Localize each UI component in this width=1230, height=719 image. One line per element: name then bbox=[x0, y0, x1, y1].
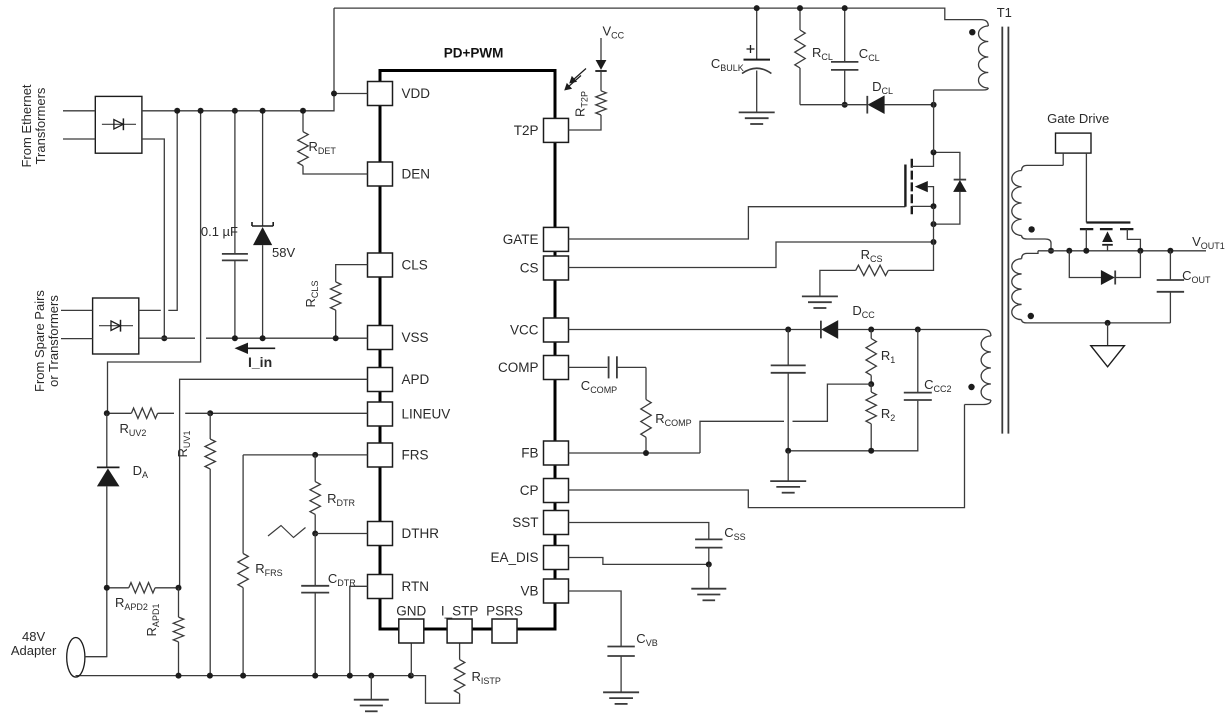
transistor Q2 gate lead bbox=[1085, 153, 1087, 222]
svg-text:VCC: VCC bbox=[510, 323, 539, 338]
transistor Q1 source lead bbox=[912, 205, 934, 207]
arrow I_in bbox=[247, 347, 275, 349]
wire lower winding to COUT bbox=[1169, 292, 1171, 323]
pin T2P box bbox=[544, 118, 569, 142]
node rail ground tap bbox=[368, 673, 374, 679]
svg-text:FB: FB bbox=[521, 446, 538, 461]
diode inside BR2 bbox=[99, 325, 133, 327]
ground CSS bbox=[708, 564, 710, 588]
node DCL to primary bbox=[931, 102, 937, 108]
node RDET top bbox=[300, 108, 306, 114]
resistor RDET bbox=[302, 111, 304, 132]
T1 upper secondary polarity dot bbox=[1028, 226, 1034, 232]
wire SST net bbox=[569, 523, 709, 540]
wire bottom rail bbox=[76, 675, 411, 677]
pin CP box bbox=[544, 479, 569, 503]
resistor RDTR bbox=[314, 455, 316, 482]
LED DT2P bbox=[600, 72, 602, 91]
diode inside BR1 bbox=[102, 123, 136, 125]
node R1 R2 junction bbox=[868, 381, 874, 387]
T1 primary polarity dot bbox=[969, 29, 975, 35]
pin COMP box bbox=[544, 356, 569, 380]
node RDTR bottom bbox=[312, 531, 318, 537]
wire RTN net bbox=[350, 586, 368, 675]
svg-text:DEN: DEN bbox=[402, 167, 431, 182]
bridge rectifier BR1 box bbox=[95, 96, 142, 153]
gate drive box bbox=[1056, 133, 1092, 153]
transistor Q1 gate bar bbox=[904, 165, 906, 207]
svg-text:PD+PWM: PD+PWM bbox=[444, 46, 504, 61]
wire GND pin stub bbox=[410, 644, 412, 676]
pin GND box bbox=[399, 619, 424, 643]
node rail RAPD1 bbox=[176, 673, 182, 679]
capacitor CCC2 bbox=[917, 330, 919, 393]
wire BR2 input top bbox=[61, 309, 93, 311]
node bottom net left bbox=[785, 448, 791, 454]
wire FB tap bbox=[700, 384, 871, 453]
pin EA_DIS box bbox=[544, 546, 569, 570]
wire VDD stub bbox=[334, 93, 368, 95]
svg-text:COMP: COMP bbox=[498, 360, 539, 375]
capacitor 0.1uF bbox=[234, 111, 236, 254]
wire VB net bbox=[569, 591, 622, 646]
node Q1 drain junction bbox=[931, 149, 937, 155]
svg-text:0.1 µF: 0.1 µF bbox=[201, 224, 238, 239]
resistor RFRS bbox=[242, 455, 244, 554]
pin FB box bbox=[544, 441, 569, 465]
wire LINEUV net right bbox=[210, 412, 367, 414]
node CCL bottom bbox=[842, 102, 848, 108]
resistor RISTP bbox=[459, 644, 461, 660]
node D58V bottom bbox=[260, 335, 266, 341]
node CS junction bbox=[931, 239, 937, 245]
node RDTR top bbox=[312, 452, 318, 458]
pin VDD box bbox=[368, 82, 393, 106]
ground CBULK bbox=[739, 111, 775, 113]
svg-text:RTN: RTN bbox=[402, 579, 430, 594]
node DCC out bbox=[868, 327, 874, 333]
svg-text:CP: CP bbox=[520, 483, 539, 498]
wire clamp bottom bbox=[800, 104, 867, 106]
svg-text:FRS: FRS bbox=[402, 448, 429, 463]
LED arrows bbox=[568, 69, 586, 88]
body diode DQ1 bbox=[934, 152, 960, 179]
node VCC cap bbox=[785, 327, 791, 333]
wire VSS line bbox=[139, 337, 368, 339]
pin DTHR box bbox=[368, 522, 393, 546]
capacitor COUT bbox=[1169, 251, 1171, 280]
node bus winding tap bbox=[1066, 248, 1072, 254]
svg-text:EA_DIS: EA_DIS bbox=[490, 550, 538, 565]
svg-text:LINEUV: LINEUV bbox=[402, 407, 451, 422]
node rail RTN bbox=[347, 673, 353, 679]
svg-text:VSS: VSS bbox=[402, 330, 429, 345]
node BR2 top output junction bbox=[174, 108, 180, 114]
svg-text:From Spare Pairsor Transformer: From Spare Pairsor Transformers bbox=[32, 290, 61, 392]
node RUV2-RUV1 junction bbox=[207, 410, 213, 416]
resistor RCL bbox=[799, 8, 801, 30]
node upper winding to bus bbox=[1048, 248, 1054, 254]
node body diode bottom bbox=[931, 221, 937, 227]
pin CLS box bbox=[368, 253, 393, 277]
node D58V top bbox=[260, 108, 266, 114]
node rail RFRS bbox=[240, 673, 246, 679]
capacitor CSS bbox=[695, 538, 722, 540]
svg-text:CS: CS bbox=[520, 261, 539, 276]
pin SST box bbox=[544, 511, 569, 535]
wire CS net bbox=[569, 242, 934, 268]
transformer T1 upper secondary winding bbox=[1022, 165, 1064, 170]
node VDD stub junction bbox=[331, 91, 337, 97]
svg-text:PSRS: PSRS bbox=[486, 604, 523, 619]
transformer T1 core bbox=[1001, 27, 1003, 434]
capacitor CVB bbox=[607, 646, 634, 648]
node CCL top bbox=[842, 5, 848, 11]
svg-text:I_in: I_in bbox=[248, 354, 272, 370]
pin VCC box bbox=[544, 318, 569, 342]
resistor R1 bbox=[870, 330, 872, 339]
svg-text:VB: VB bbox=[520, 584, 538, 599]
wire secondary bus bbox=[1038, 250, 1206, 252]
node rail GND pin bbox=[408, 673, 414, 679]
transformer T1 lower secondary winding bbox=[1022, 251, 1038, 259]
capacitor CCL bbox=[844, 8, 846, 62]
ground secondary bbox=[1107, 323, 1109, 346]
node Q1 source junction bbox=[931, 203, 937, 209]
node RCL top bbox=[797, 5, 803, 11]
pin FRS box bbox=[368, 443, 393, 467]
svg-text:GATE: GATE bbox=[503, 232, 539, 247]
node bottom net R2 bbox=[868, 448, 874, 454]
svg-text:I_STP: I_STP bbox=[441, 604, 479, 619]
transistor Q1 body lead bbox=[928, 187, 934, 207]
capacitor CDTR bbox=[314, 534, 316, 586]
node BR1 output on VSS line bbox=[161, 335, 167, 341]
48V adapter plug bbox=[67, 638, 85, 678]
transistor Q1 channel dashes bbox=[911, 159, 913, 215]
sawtooth dither glyph bbox=[268, 526, 306, 538]
resistor RCOMP bbox=[645, 367, 647, 399]
svg-text:VDD: VDD bbox=[402, 86, 431, 101]
wire main input rail bbox=[142, 8, 334, 111]
wire gate drive to upper winding bbox=[1062, 153, 1064, 165]
wire BR1 input top bbox=[63, 110, 95, 112]
wire CP net bbox=[569, 405, 965, 508]
wire BR2 top output bbox=[139, 111, 177, 311]
wire BR1 input bottom bbox=[63, 138, 95, 140]
transistor Q2 right lead bbox=[1127, 229, 1140, 251]
svg-text:From EthernetTransformers: From EthernetTransformers bbox=[19, 84, 48, 167]
transistor Q1 body arrow bbox=[915, 181, 928, 192]
bridge rectifier BR2 box bbox=[93, 298, 139, 354]
node CBULK top bbox=[754, 5, 760, 11]
pin GATE box bbox=[544, 227, 569, 251]
node CCC2 top bbox=[915, 327, 921, 333]
resistor RAPD1 bbox=[178, 588, 180, 617]
transistor Q2 channel dashes bbox=[1080, 228, 1134, 230]
resistor R2 bbox=[870, 384, 872, 392]
resistor RUV2 bbox=[107, 412, 132, 414]
diode DCC bbox=[820, 321, 822, 339]
svg-text:CLS: CLS bbox=[402, 258, 428, 273]
node RAPD2 left bbox=[104, 585, 110, 591]
transistor Q1 drain lead bbox=[912, 152, 934, 166]
ground RCS bbox=[802, 295, 838, 297]
resistor RAPD2 bbox=[129, 583, 155, 593]
resistor RCLS bbox=[336, 265, 368, 282]
node rail CDTR bbox=[312, 673, 318, 679]
capacitor CBULK bbox=[756, 8, 758, 60]
diode DA bbox=[106, 413, 108, 467]
capacitor CVCC bbox=[787, 330, 789, 366]
pin VSS box bbox=[368, 326, 393, 350]
wire EA_DIS net bbox=[569, 558, 709, 565]
wire adapter tip bbox=[85, 656, 107, 658]
wire bottom net bbox=[788, 401, 918, 451]
node bus Q2 right bbox=[1137, 248, 1143, 254]
svg-text:SST: SST bbox=[512, 515, 538, 530]
transistor Q2 gate bar bbox=[1086, 221, 1130, 223]
transistor Q2 left lead bbox=[1085, 229, 1087, 251]
svg-text:T1: T1 bbox=[997, 5, 1012, 20]
wire BR1 bottom output to VSS line bbox=[142, 139, 164, 338]
node bus COUT bbox=[1167, 248, 1173, 254]
node bus Q2 left bbox=[1083, 248, 1089, 254]
wire BR2 input bottom bbox=[61, 338, 93, 340]
IC U1 PD+PWM controller body bbox=[380, 71, 555, 630]
node RAPD2 right bbox=[176, 585, 182, 591]
pin LINEUV box bbox=[368, 402, 393, 426]
pin I_STP box bbox=[447, 619, 472, 643]
capacitor CCOMP bbox=[569, 366, 608, 368]
wire FRS net bbox=[243, 454, 367, 456]
wire GATE net bbox=[569, 207, 906, 239]
wire primary bottom lead bbox=[933, 90, 935, 152]
resistor RUV1 bbox=[209, 413, 211, 439]
transformer T1 primary winding bbox=[981, 20, 988, 26]
pin DEN box bbox=[368, 162, 393, 186]
pin RTN box bbox=[368, 575, 393, 599]
svg-text:58V: 58V bbox=[272, 245, 295, 260]
wire VCC net bbox=[569, 329, 821, 331]
wire Q1 source to CS bbox=[933, 206, 935, 242]
svg-text:DTHR: DTHR bbox=[402, 526, 440, 541]
T1 aux polarity dot bbox=[968, 384, 974, 390]
wire FB net bbox=[569, 452, 701, 454]
wire T2P stub bbox=[569, 115, 602, 130]
node rail RUV1 bbox=[207, 673, 213, 679]
resistor RCS bbox=[888, 242, 933, 270]
pin VB box bbox=[544, 579, 569, 603]
diode D2 freewheel bbox=[1069, 251, 1102, 278]
resistor RT2P bbox=[596, 91, 606, 115]
ground CVB bbox=[603, 691, 639, 693]
wire jog to DA branch bbox=[108, 111, 201, 414]
ground bottom net bbox=[787, 451, 789, 481]
ground main rail bbox=[370, 676, 372, 700]
zener D58V bbox=[262, 111, 264, 226]
pin APD box bbox=[368, 368, 393, 392]
T1 lower secondary polarity dot bbox=[1028, 313, 1034, 319]
pin PSRS box bbox=[492, 619, 517, 643]
diode DCL bbox=[866, 96, 868, 114]
svg-text:T2P: T2P bbox=[514, 123, 539, 138]
svg-text:GND: GND bbox=[396, 604, 426, 619]
pin CS box bbox=[544, 256, 569, 280]
node 0.1uF top bbox=[232, 108, 238, 114]
transistor Q2 body arrow bbox=[1102, 231, 1113, 242]
transformer T1 aux winding bbox=[983, 330, 991, 337]
node RCLS bottom bbox=[333, 335, 339, 341]
wire APD net bbox=[180, 379, 368, 588]
wire DTHR stub bbox=[315, 533, 367, 535]
node 0.1uF bottom bbox=[232, 335, 238, 341]
svg-text:Gate Drive: Gate Drive bbox=[1047, 111, 1109, 126]
node RCOMP bottom bbox=[643, 450, 649, 456]
svg-text:APD: APD bbox=[402, 372, 430, 387]
node jog junction bbox=[198, 108, 204, 114]
node RUV2 left bbox=[104, 410, 110, 416]
node CSS bottom bbox=[706, 561, 712, 567]
wire top rail right bbox=[334, 8, 981, 20]
node winding ground tap bbox=[1105, 320, 1111, 326]
